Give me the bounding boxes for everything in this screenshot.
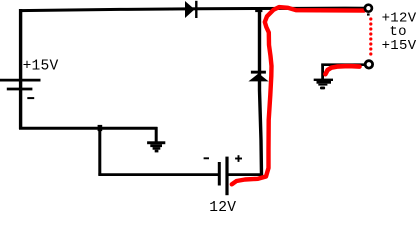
ground G1 symbol (147, 141, 165, 152)
wire bottom horizontal from junction to 12V battery negative plate (98, 173, 219, 176)
wire vertical from junction down (98, 128, 101, 176)
ground G1 stub (155, 127, 158, 143)
ground G2 symbol (314, 79, 333, 90)
svg-text:+15V: +15V (23, 59, 59, 75)
wire top horizontal from +15V battery to output terminal T1 (19, 8, 364, 11)
svg-text:12V: 12V (209, 200, 236, 211)
diode D2 triangle pointing up (248, 73, 268, 81)
battery B2 12V positive long plate (225, 157, 228, 196)
terminal T2 output bottom (365, 61, 372, 68)
wire mid vertical from top wire down to 12V battery positive side (260, 9, 262, 176)
node junction dot at left bottom wire (98, 125, 103, 131)
battery B2 12V negative short plate (218, 162, 221, 186)
wire from output terminal T2 left (321, 63, 364, 66)
battery B1 +15V top plate (0, 79, 41, 82)
diode D1 triangle (anode) pointing right (185, 1, 195, 18)
node junction dot where mid vertical meets top wire (255, 7, 262, 12)
wire down to ground G2 (321, 64, 324, 81)
terminal T1 output top (365, 5, 372, 12)
diode D1 cathode bar (195, 1, 197, 18)
wire bottom-left horizontal from B1 to ground tap (19, 127, 157, 130)
red highlight wire from ground G2 up to terminal T2 (325, 66, 359, 74)
label minus sign of B1 (27, 97, 34, 99)
diode D2 cathode bar (251, 71, 266, 74)
wire left vertical from top wire down to +15V battery (19, 9, 22, 129)
battery B1 +15V bottom plate (7, 88, 33, 91)
svg-text:+15V: +15V (382, 38, 417, 54)
red highlight wire main path from T1 down to 12V battery positive (232, 7, 364, 184)
label plus sign of B2 (235, 155, 242, 162)
label minus sign of B2 (204, 157, 209, 159)
red dotted link between T1 and T2 (369, 17, 372, 55)
terminal T1 lower nub (367, 13, 370, 15)
wire from B2 positive plate to mid vertical (227, 173, 262, 176)
